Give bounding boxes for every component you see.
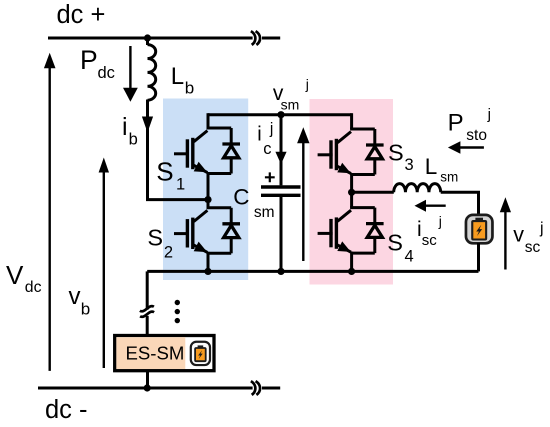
- svg-text:v: v: [69, 283, 81, 310]
- svg-text:L: L: [171, 63, 184, 90]
- capacitor C_sm: [261, 185, 301, 188]
- svg-text:sm: sm: [254, 204, 275, 221]
- svg-text:c: c: [263, 140, 271, 158]
- svg-text:b: b: [129, 131, 138, 149]
- svg-text:S: S: [388, 139, 404, 165]
- transistor S1: [174, 113, 231, 199]
- wire: dc+ to L_b: [146, 38, 149, 45]
- svg-text:b: b: [185, 79, 194, 98]
- svg-text:C: C: [233, 185, 249, 210]
- arrow v_sc: [504, 211, 506, 270]
- svg-text:i: i: [122, 113, 128, 141]
- svg-text:sc: sc: [525, 239, 541, 256]
- svg-text:dc -: dc -: [45, 396, 88, 424]
- diode D1: [222, 128, 240, 174]
- svg-text:sm: sm: [281, 96, 300, 112]
- svg-text:j: j: [269, 121, 273, 138]
- wire: dc+ rail: [48, 37, 253, 40]
- svg-text:j: j: [487, 106, 491, 123]
- inductor L_b: [148, 45, 156, 101]
- wire: midpoint to L_sm: [352, 191, 394, 194]
- svg-text:dc +: dc +: [57, 1, 106, 29]
- wire: C_sm to SM bottom rail: [280, 197, 283, 272]
- svg-text:4: 4: [405, 247, 414, 265]
- svg-text:ES-SM: ES-SM: [126, 342, 185, 363]
- wire: v_sm node to C_sm: [280, 115, 283, 186]
- vertical ellipsis dots: [175, 300, 180, 305]
- break marks top rail: [251, 31, 255, 45]
- svg-text:j: j: [305, 76, 309, 92]
- transistor S3: [318, 113, 375, 192]
- transistor S2: [174, 200, 231, 272]
- diode D3: [366, 129, 384, 175]
- wire: S2 node down to ES-SM: [146, 271, 149, 309]
- svg-text:P: P: [80, 45, 98, 75]
- supercapacitor icon: [466, 215, 493, 243]
- pink storage-SM region: [310, 99, 394, 285]
- node SM bottom left: [204, 268, 211, 275]
- inductor L_sm: [394, 184, 441, 193]
- wire: SM bottom rail: [147, 270, 478, 273]
- svg-text:S: S: [387, 229, 403, 255]
- node S4 bottom: [348, 268, 355, 275]
- plus sign: [265, 172, 275, 182]
- wire: L_b to S1/S2 midpoint: [148, 100, 209, 200]
- arrow V_dc: [49, 66, 51, 371]
- svg-text:j: j: [539, 220, 544, 237]
- svg-text:i: i: [257, 124, 261, 146]
- svg-text:j: j: [438, 213, 442, 229]
- svg-text:sm: sm: [440, 170, 458, 185]
- diode D2: [222, 208, 240, 254]
- wire: L_sm to supercap: [441, 192, 479, 215]
- svg-text:2: 2: [164, 244, 173, 262]
- battery icon in ES-SM: [191, 342, 210, 365]
- svg-text:S: S: [156, 156, 173, 186]
- svg-text:P: P: [448, 109, 464, 136]
- svg-text:sc: sc: [422, 232, 438, 249]
- arrow P_sto: [458, 146, 484, 148]
- current arrow i_c: [275, 152, 286, 165]
- wire: supercap to SM bottom rail: [477, 243, 480, 271]
- node on dc- rail: [144, 384, 151, 391]
- wire: ES-SM to dc- rail: [146, 371, 149, 388]
- arrow v_b: [103, 171, 105, 369]
- diode D4: [366, 208, 384, 254]
- svg-text:b: b: [81, 300, 90, 319]
- svg-text:dc: dc: [98, 64, 115, 82]
- current arrow i_b: [142, 117, 153, 133]
- svg-text:3: 3: [405, 156, 414, 174]
- svg-text:v: v: [513, 222, 524, 246]
- arrow P_dc: [129, 46, 131, 89]
- wire: dc- rail: [38, 387, 253, 390]
- node S3/S4 midpoint: [348, 189, 355, 196]
- ES-SM box: [115, 336, 214, 371]
- svg-text:dc: dc: [25, 279, 42, 296]
- svg-text:S: S: [147, 225, 163, 251]
- svg-text:V: V: [6, 260, 24, 290]
- blue buck-SM region: [163, 99, 248, 281]
- arrow v_sm: [302, 142, 304, 261]
- node v_sm: [277, 111, 284, 118]
- wire: SM top rail: [208, 113, 352, 116]
- svg-text:1: 1: [176, 175, 185, 193]
- node S1/S2 midpoint: [204, 196, 211, 203]
- svg-text:sto: sto: [466, 127, 487, 144]
- svg-text:L: L: [425, 154, 438, 179]
- node C_sm bottom: [277, 268, 284, 275]
- node on dc+ rail: [144, 34, 151, 41]
- transistor S4: [318, 192, 375, 271]
- break marks bottom rail: [251, 381, 255, 395]
- break marks vertical wire: [140, 306, 154, 311]
- arrow i_sc: [425, 204, 446, 206]
